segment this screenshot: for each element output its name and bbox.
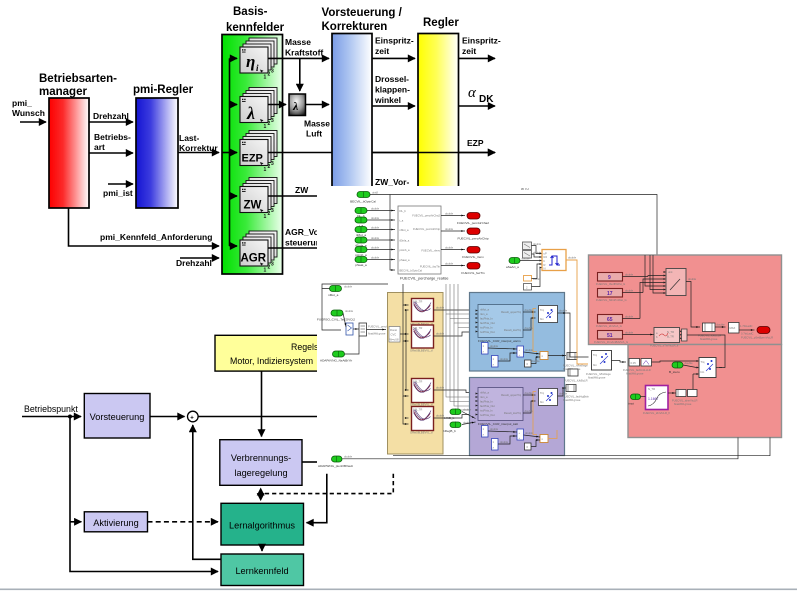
- svg-text:double: double: [525, 348, 534, 352]
- block Basis-kennfelder (green gradient): [222, 35, 283, 275]
- svg-text:double: double: [525, 431, 534, 435]
- wire Betriebspunkt in: [22, 416, 81, 418]
- svg-text:uP: uP: [544, 252, 547, 256]
- wires lower into relay: [532, 264, 541, 287]
- svg-text:+: +: [190, 415, 194, 421]
- svg-text:Betriebs-: Betriebs-: [94, 132, 131, 142]
- block sum blue: [517, 346, 524, 357]
- block unit delay purple 1: [482, 426, 489, 438]
- wires bHtB ports: [462, 412, 476, 425]
- block lookup map 4: [410, 407, 434, 435]
- svg-text:double: double: [525, 409, 534, 413]
- block const 51: [594, 331, 654, 345]
- svg-text:Korrektur: Korrektur: [179, 143, 218, 153]
- svg-text:double: double: [522, 257, 531, 261]
- svg-text:Korrekturen: Korrekturen: [322, 21, 388, 33]
- svg-text:MAX: MAX: [730, 326, 736, 330]
- svg-text:double: double: [625, 331, 634, 335]
- svg-text:FUECVIL_facHtgBsln: FUECVIL_facHtgBsln: [563, 395, 589, 399]
- block Vorsteuerung: [84, 394, 150, 439]
- svg-text:double: double: [490, 427, 499, 431]
- svg-text:FUERSO_CVIL_TaCOVCt2: FUERSO_CVIL_TaCOVCt2: [317, 318, 355, 322]
- block relay warm: [539, 306, 558, 323]
- svg-text:pmi-Regler: pmi-Regler: [133, 84, 194, 96]
- svg-text:0.7btLadC: 0.7btLadC: [741, 332, 753, 336]
- wire dashed feedback net: [261, 474, 394, 501]
- svg-text:Einspritz-: Einspritz-: [375, 36, 414, 46]
- wires tan to blue/purple trunks: [434, 284, 476, 418]
- footer rule: [0, 589, 797, 591]
- svg-text:double: double: [525, 326, 534, 330]
- block lookup map 1: [410, 299, 434, 327]
- svg-text:double: double: [717, 323, 726, 327]
- svg-text:bRegB_b: bRegB_b: [443, 429, 456, 433]
- svg-text:FUECVIL_tdnnVtcLR: FUECVIL_tdnnVtcLR: [672, 399, 697, 403]
- svg-text:tvcPhia_Out: tvcPhia_Out: [480, 330, 495, 334]
- svg-text:floatWfd.grose: floatWfd.grose: [674, 402, 692, 406]
- block const 65: [596, 315, 640, 329]
- svg-text:Trq: Trq: [593, 353, 597, 357]
- block CUR_interpol_warm subsystem: [476, 305, 524, 344]
- svg-text:double: double: [371, 207, 380, 211]
- wires mid selectors: [343, 313, 395, 336]
- block compare blue (orange): [540, 352, 548, 360]
- map icon AGR: [240, 231, 277, 274]
- svg-text:double: double: [445, 246, 454, 250]
- svg-text:double: double: [371, 246, 380, 250]
- svg-text:double: double: [525, 391, 534, 395]
- wire ADAPtIVNG to selector: [345, 336, 360, 354]
- wire orange path purple region: [533, 392, 537, 435]
- svg-text:rlen_a: rlen_a: [480, 395, 488, 399]
- svg-text:Einspritz-: Einspritz-: [462, 36, 501, 46]
- port FUERSO_CVIL input: [317, 309, 355, 322]
- svg-text:floatWfd.grose: floatWfd.grose: [368, 332, 386, 336]
- svg-text:Lernkennfeld: Lernkennfeld: [235, 566, 288, 576]
- wire eta to Vorsteuerung: [268, 57, 329, 59]
- wire Drehzahl 2: [180, 257, 219, 259]
- label Last-Korrektur: [179, 133, 218, 153]
- block output tag warm: [563, 353, 588, 372]
- svg-text:N_TR: N_TR: [648, 387, 655, 391]
- svg-text:FUECVIL_tSurfPtWst_G: FUECVIL_tSurfPtWst_G: [596, 282, 625, 286]
- svg-text:ZW: ZW: [295, 185, 309, 195]
- svg-text:1.7btLadC: 1.7btLadC: [740, 324, 752, 328]
- block switch outside left: [586, 351, 612, 380]
- svg-text:Verbrennungs-: Verbrennungs-: [231, 453, 291, 463]
- wire lambda block to Vorsteuerung: [306, 104, 330, 106]
- block relay kalt: [539, 389, 558, 406]
- region warm interpolation (blue): [470, 293, 565, 372]
- svg-text:DK: DK: [479, 94, 494, 105]
- svg-text:tvcPhia_In: tvcPhia_In: [480, 409, 493, 413]
- svg-text:51: 51: [607, 333, 613, 339]
- svg-text:Ronst: Ronst: [390, 328, 397, 332]
- svg-text:ADAPWNG_pienOBVault: ADAPWNG_pienOBVault: [318, 464, 353, 468]
- svg-text:NM_TR: NM_TR: [413, 408, 422, 412]
- node sum junction: [188, 411, 199, 422]
- wire bOptnCal long to red region: [370, 195, 666, 274]
- wire Lernkennfeld feedback to sum: [193, 425, 221, 559]
- svg-text:double: double: [445, 212, 454, 216]
- svg-text:double: double: [371, 236, 380, 240]
- wire relay warm output down: [567, 313, 589, 357]
- svg-text:FUECVIL_tdnVtcA_G: FUECVIL_tdnVtcA_G: [596, 324, 622, 328]
- svg-text:FUECVIL_percAirCha2: FUECVIL_percAirCha2: [412, 214, 440, 218]
- label Drehzahl: [93, 111, 129, 121]
- wires input column to subsystem: [367, 207, 395, 260]
- port bHtB_b: [444, 408, 472, 421]
- wires subsystem outputs: [441, 212, 465, 266]
- svg-text:nMot_a: nMot_a: [480, 391, 489, 395]
- block chain A: [698, 323, 721, 341]
- wire nMot_a routing: [322, 284, 388, 330]
- wire AGR out: [268, 247, 318, 249]
- svg-text:FUECVIL_xTmVtcLR_fl: FUECVIL_xTmVtcLR_fl: [650, 344, 679, 348]
- title pmi-Regler: [133, 84, 194, 96]
- wire EZP long line over boxes: [372, 152, 495, 154]
- svg-text:double: double: [445, 227, 454, 231]
- svg-text:nMot_a: nMot_a: [328, 293, 339, 297]
- block lookup map 3: [410, 379, 434, 407]
- svg-text:Kraftstoff: Kraftstoff: [285, 48, 323, 58]
- label alpha_DK: [468, 85, 494, 105]
- wire Last-Korrektur: [178, 152, 219, 154]
- svg-text:Result_upperTrq: Result_upperTrq: [501, 393, 521, 397]
- svg-text:W=uU8: W=uU8: [390, 338, 400, 342]
- svg-text:FUECVIL_percAirChtp: FUECVIL_percAirChtp: [457, 237, 488, 241]
- label EZP right: [467, 138, 484, 148]
- svg-text:winkel: winkel: [374, 95, 401, 105]
- svg-text:double: double: [625, 289, 634, 293]
- wires blue lower: [488, 344, 566, 364]
- wire Drosselklappenwinkel: [372, 105, 415, 107]
- svg-text:Result_lowTrq: Result_lowTrq: [504, 411, 522, 415]
- block selector C2: [523, 251, 542, 259]
- svg-text:btn: btn: [593, 363, 597, 367]
- block unit delay purple 2: [492, 439, 499, 451]
- svg-text:zeit: zeit: [375, 46, 389, 56]
- wire relay output orange: [566, 256, 588, 365]
- svg-text:floatWfd.grose: floatWfd.grose: [700, 337, 718, 341]
- svg-text:double: double: [436, 386, 445, 390]
- block lookup map 2: [410, 325, 434, 353]
- svg-text:Drehzahl: Drehzahl: [93, 111, 129, 121]
- label pmi_Kennfeld_Anforderung: [100, 232, 212, 242]
- block orange tag small: [524, 276, 541, 282]
- ports input column: [355, 208, 367, 268]
- block tiny selector A: [346, 323, 353, 335]
- svg-text:aSaArt_a: aSaArt_a: [506, 265, 519, 269]
- block CUR_interpol_kalt subsystem: [476, 388, 524, 427]
- svg-text:NM_TR: NM_TR: [413, 380, 422, 384]
- block const 9: [596, 273, 648, 287]
- wires into switch2: [652, 361, 723, 393]
- block small tag below switch: [564, 369, 588, 383]
- wire EZP long line: [268, 152, 495, 154]
- svg-text:double: double: [371, 226, 380, 230]
- svg-text:double: double: [445, 262, 454, 266]
- wire Drehzahl: [89, 121, 133, 123]
- svg-text:Aktivierung: Aktivierung: [93, 518, 138, 528]
- svg-text:nMot_a: nMot_a: [400, 228, 409, 232]
- svg-text:Vorsteuerung: Vorsteuerung: [90, 412, 145, 422]
- label AGR_Vorsteuerung: [285, 227, 330, 248]
- svg-text:FUECVIL_tdnVtcLR_fl: FUECVIL_tdnVtcLR_fl: [643, 411, 670, 415]
- title Regler: [423, 17, 459, 29]
- svg-text:pSaat_a: pSaat_a: [355, 263, 367, 267]
- svg-text:17: 17: [607, 291, 613, 297]
- wire lambda map to lambda block: [268, 104, 286, 106]
- svg-text:FUECVIL_tWmPmWst_G: FUECVIL_tWmPmWst_G: [596, 298, 627, 302]
- svg-text:manager: manager: [39, 86, 87, 98]
- svg-text:tEinla_a: tEinla_a: [400, 239, 410, 243]
- wire Einspritzzeit middle: [372, 57, 415, 59]
- label screenshot top fragment: [521, 187, 529, 191]
- svg-text:double: double: [500, 357, 509, 361]
- port aSaArt_a: [506, 257, 530, 270]
- port output pSet red oval: [741, 327, 773, 340]
- block Vorsteuerung/Korrekturen (light blue gradient): [332, 34, 372, 188]
- label pmi_Wunsch: [12, 98, 45, 118]
- region strategy top (salmon): [589, 255, 782, 345]
- region lookup maps (tan): [388, 293, 444, 455]
- svg-text:tvcPhia_Out: tvcPhia_Out: [480, 413, 495, 417]
- port bRegB_b: [443, 421, 472, 434]
- block unit delay blue 1: [482, 343, 489, 355]
- label Einspritz-zeit (middle): [375, 36, 414, 57]
- block Regler (yellow gradient): [418, 34, 459, 188]
- wires chain: [715, 323, 755, 336]
- svg-text:rlen_a: rlen_a: [480, 312, 488, 316]
- block switch2 bottom: [697, 358, 717, 378]
- svg-text:pmi_ist: pmi_ist: [103, 188, 133, 198]
- svg-text:double: double: [371, 216, 380, 220]
- svg-text:art: art: [94, 142, 105, 152]
- block zero const blue: [525, 360, 532, 367]
- wires purple region: [523, 388, 568, 413]
- wire Masse Kraftstoff branch down to lambda multiplier: [299, 58, 301, 91]
- svg-text:double: double: [463, 408, 472, 412]
- label Drehzahl 2: [176, 258, 212, 268]
- svg-text:tmot: tmot: [628, 402, 634, 406]
- svg-text:NM_TR: NM_TR: [413, 326, 422, 330]
- wires purple lower: [488, 427, 557, 447]
- block hysteresis relay (orange border): [540, 250, 567, 271]
- wire Betriebsart: [89, 152, 133, 154]
- port B_stero: [669, 361, 693, 374]
- block const 2: [524, 284, 532, 291]
- svg-text:double: double: [371, 256, 380, 260]
- svg-text:FUECVIL_percharge_realise: FUECVIL_percharge_realise: [400, 277, 449, 281]
- svg-text:Betriebspunkt: Betriebspunkt: [24, 404, 78, 414]
- wire bus inside Basis-kennfelder: [222, 58, 237, 246]
- block Verbrennungs-lageregelung: [220, 440, 302, 486]
- svg-text:facPhia_Out: facPhia_Out: [480, 321, 495, 325]
- svg-text:FUECVIL_rlenv: FUECVIL_rlenv: [462, 255, 484, 259]
- svg-text:double: double: [625, 315, 634, 319]
- title Vorsteuerung / Korrekturen: [322, 7, 403, 33]
- wire Lernalgorithmus to Lernkennfeld: [261, 545, 263, 551]
- svg-text:facPhia_In: facPhia_In: [480, 400, 493, 404]
- map icon EZP: [240, 131, 277, 174]
- svg-text:α: α: [468, 85, 477, 101]
- block const 17: [596, 289, 643, 303]
- wire to Aktivierung: [70, 521, 81, 523]
- ports output red ovals: [457, 213, 489, 276]
- wire Vorsteuerung to sum: [150, 416, 185, 418]
- wires inside tan region: [400, 284, 409, 424]
- port nMot_a mid: [328, 285, 353, 298]
- svg-text:Motor, Indiziersystem: Motor, Indiziersystem: [230, 356, 313, 366]
- wires blue region: [523, 308, 568, 330]
- svg-text:double: double: [532, 359, 541, 363]
- block Regelstrecke Motor Indiziersystem (yellow): [215, 335, 342, 371]
- wire pmi_ist: [108, 183, 133, 185]
- node junction Betriebspunkt: [68, 415, 72, 419]
- svg-text:GRwU8LBEVVL_tf: GRwU8LBEVVL_tf: [410, 349, 433, 353]
- svg-text:pmi_Kennfeld_Anforderung: pmi_Kennfeld_Anforderung: [100, 232, 212, 242]
- svg-text:double: double: [490, 344, 499, 348]
- wire alpha_DK out: [459, 105, 496, 107]
- svg-text:η: η: [246, 52, 255, 71]
- block multiport switch: [664, 269, 687, 296]
- block unit delay blue 2: [492, 356, 499, 368]
- svg-text:AGR: AGR: [241, 253, 267, 265]
- svg-text:FUECVIL_rVbsNege: FUECVIL_rVbsNege: [586, 372, 611, 376]
- svg-text:btn: btn: [540, 400, 544, 404]
- wire orange path blue region: [533, 309, 537, 352]
- label ZW_Vor-: [375, 177, 409, 187]
- port tmot: [628, 394, 641, 406]
- map icon ZW: [240, 178, 277, 221]
- svg-text:nMot_a: nMot_a: [480, 308, 489, 312]
- svg-text:bHtB_b: bHtB_b: [444, 416, 455, 420]
- wire long model output line upper: [393, 438, 770, 456]
- svg-text:EZP: EZP: [242, 153, 263, 165]
- title Basis-kennfelder: [226, 6, 285, 34]
- svg-text:double: double: [568, 256, 577, 260]
- block pmi-Regler (blue gradient): [136, 98, 178, 208]
- svg-text:Regler: Regler: [423, 17, 459, 29]
- svg-text:GRwU8LBEVVL_tf: GRwU8LBEVVL_tf: [410, 431, 433, 435]
- block pair right of magenta: [672, 390, 697, 407]
- svg-text:B_stero: B_stero: [669, 370, 680, 374]
- svg-text:double: double: [344, 285, 353, 289]
- svg-text:pAmb_a: pAmb_a: [400, 248, 411, 252]
- wire tmot to magenta: [641, 396, 646, 398]
- svg-text:btn: btn: [540, 317, 544, 321]
- wire pmi_Kennfeld_Anforderung: [69, 208, 220, 246]
- wires into relay: [520, 246, 540, 261]
- label ZW: [295, 185, 309, 195]
- wire ZW out: [268, 195, 318, 197]
- wire Einspritzzeit out: [459, 57, 496, 59]
- svg-text:FUECVIL_facTln: FUECVIL_facTln: [461, 271, 484, 275]
- svg-text:lageregelung: lageregelung: [234, 468, 287, 478]
- svg-text:btn: btn: [701, 370, 705, 374]
- map icon lambda: [240, 88, 277, 131]
- svg-text:Drossel-: Drossel-: [375, 74, 409, 84]
- port ADAPtIVNG input: [320, 351, 352, 363]
- svg-text:FUECVIL_percAirChtp: FUECVIL_percAirChtp: [413, 227, 441, 231]
- svg-text:FUECVIL_facNmtLcLR: FUECVIL_facNmtLcLR: [623, 368, 651, 372]
- block chain MAX: [729, 323, 753, 334]
- label pmi_ist: [103, 188, 133, 198]
- svg-text:pSaat_a: pSaat_a: [400, 258, 411, 262]
- svg-text:FUECVIL_rlenv: FUECVIL_rlenv: [421, 249, 440, 253]
- svg-text:9: 9: [608, 275, 611, 281]
- svg-text:DL_b: DL_b: [400, 209, 407, 213]
- svg-text:double: double: [436, 332, 445, 336]
- svg-text:Result_lowTrq: Result_lowTrq: [504, 328, 522, 332]
- svg-text:klappen-: klappen-: [375, 85, 410, 95]
- wire Regelstrecke down to Verbrennungslageregelung: [261, 371, 263, 436]
- svg-text:double: double: [500, 440, 509, 444]
- svg-text:λ: λ: [292, 99, 299, 113]
- svg-text:Masse: Masse: [285, 37, 311, 47]
- wire switch to gain pair: [612, 361, 627, 363]
- wire long model output line lower: [341, 438, 738, 459]
- block FUECVIL_percharge_realise subsystem: [398, 206, 449, 281]
- svg-text:λ: λ: [246, 103, 255, 123]
- wire sum to plant: [198, 416, 318, 418]
- wire Aktivierung dashed to Lernalgorithmus: [148, 521, 219, 523]
- svg-text:Result_upperTrq: Result_upperTrq: [501, 310, 521, 314]
- svg-text:FUECVIL_facTln: FUECVIL_facTln: [420, 265, 441, 269]
- screenshot background: [317, 186, 797, 470]
- svg-text:ZW: ZW: [244, 200, 262, 212]
- svg-text:CVC: CVC: [391, 333, 397, 337]
- block gain pair: [623, 359, 652, 376]
- wire model output to Lernalgorithmus: [307, 474, 327, 523]
- region kalt interpolation (purple): [470, 378, 565, 456]
- svg-text:nMot_a: nMot_a: [356, 233, 367, 237]
- label Betriebspunkt: [24, 404, 78, 414]
- svg-text:tvcPhia_In: tvcPhia_In: [480, 326, 493, 330]
- region strategy bottom (salmon): [628, 345, 782, 438]
- svg-text:B_TR: B_TR: [667, 335, 674, 339]
- svg-text:Trq: Trq: [701, 360, 705, 364]
- svg-text:double: double: [688, 277, 697, 281]
- svg-text:double: double: [625, 273, 634, 277]
- svg-text:Trq: Trq: [540, 391, 544, 395]
- label Masse Luft: [304, 119, 330, 139]
- block selector C1: [523, 242, 542, 250]
- block mini mux: [680, 329, 687, 341]
- svg-text:floatWfd.grose: floatWfd.grose: [626, 372, 644, 376]
- label Betriebs-art: [94, 132, 131, 152]
- label Einspritz-zeit (right): [462, 36, 501, 57]
- wires into multiport switch: [640, 255, 664, 319]
- block sum purple: [517, 429, 524, 440]
- svg-text:EZP: EZP: [467, 138, 484, 148]
- map icon eta_i: [240, 38, 277, 81]
- svg-text:Masse: Masse: [304, 119, 330, 129]
- svg-text:Basis-: Basis-: [233, 6, 268, 18]
- wire pmi_Wunsch: [20, 121, 46, 123]
- block Betriebsartenmanager (red gradient): [49, 98, 89, 208]
- svg-text:FUECVIL_tFmAmBdVtcA_G: FUECVIL_tFmAmBdVtcA_G: [594, 340, 628, 344]
- svg-text:Last-: Last-: [179, 133, 199, 143]
- svg-text:double: double: [344, 455, 353, 459]
- wire Betriebspunkt vertical feed: [70, 417, 218, 572]
- wire center block to bottom switch: [687, 335, 725, 368]
- svg-text:N: N: [544, 267, 546, 271]
- svg-text:double: double: [559, 309, 568, 313]
- svg-text:Trq: Trq: [540, 308, 544, 312]
- svg-text:65: 65: [607, 317, 613, 323]
